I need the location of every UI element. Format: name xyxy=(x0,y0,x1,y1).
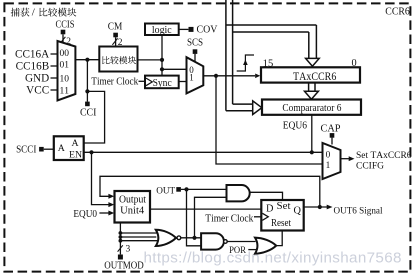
svg-text:CC16A: CC16A xyxy=(15,49,49,61)
svg-text:Timer Clock: Timer Clock xyxy=(205,213,254,224)
svg-text:A: A xyxy=(58,143,65,154)
svg-text:10: 10 xyxy=(60,74,70,84)
svg-text:Unit4: Unit4 xyxy=(120,206,144,217)
svg-text:COV: COV xyxy=(197,23,218,35)
svg-text:CCIS: CCIS xyxy=(56,20,75,31)
svg-text:EQU0: EQU0 xyxy=(73,209,97,220)
svg-text:CC16B: CC16B xyxy=(16,61,50,73)
svg-text:VCC: VCC xyxy=(26,85,49,97)
svg-text:OUT6 Signal: OUT6 Signal xyxy=(334,206,383,217)
svg-text:OUT: OUT xyxy=(156,185,175,196)
svg-text:EN: EN xyxy=(69,150,82,161)
svg-text:0: 0 xyxy=(326,151,331,161)
svg-text:CM: CM xyxy=(108,21,123,33)
svg-text:GND: GND xyxy=(25,73,49,85)
svg-text:1: 1 xyxy=(189,72,194,82)
svg-text:EQU6: EQU6 xyxy=(283,121,307,132)
svg-text:1: 1 xyxy=(326,161,331,171)
svg-text:Sync: Sync xyxy=(153,78,173,89)
svg-text:00: 00 xyxy=(60,49,70,59)
svg-text:Compararator 6: Compararator 6 xyxy=(282,102,341,114)
svg-text:https://blog.csdn.net/xinyinsh: https://blog.csdn.net/xinyinshan7568 xyxy=(144,250,402,267)
svg-text:logic: logic xyxy=(152,25,172,36)
svg-text:CCR6: CCR6 xyxy=(385,5,410,17)
svg-text:01: 01 xyxy=(60,60,70,70)
svg-text:TAxCCR6: TAxCCR6 xyxy=(293,71,337,83)
svg-text:OUTMOD: OUTMOD xyxy=(104,261,144,272)
svg-text:SCCI: SCCI xyxy=(16,144,36,155)
svg-text:CCI: CCI xyxy=(80,107,97,118)
svg-text:11: 11 xyxy=(60,86,70,96)
svg-text:CAP: CAP xyxy=(321,124,341,135)
svg-text:Timer Clock: Timer Clock xyxy=(91,76,139,87)
svg-text:Output: Output xyxy=(119,194,146,205)
svg-text:SCS: SCS xyxy=(187,38,203,49)
svg-text:D: D xyxy=(266,204,274,215)
svg-text:Q: Q xyxy=(294,206,302,217)
svg-text:A: A xyxy=(71,138,78,149)
svg-text:CCIFG: CCIFG xyxy=(356,160,384,171)
svg-text:Reset: Reset xyxy=(271,218,291,229)
svg-text:Set: Set xyxy=(277,201,291,212)
svg-text:3: 3 xyxy=(126,245,131,255)
